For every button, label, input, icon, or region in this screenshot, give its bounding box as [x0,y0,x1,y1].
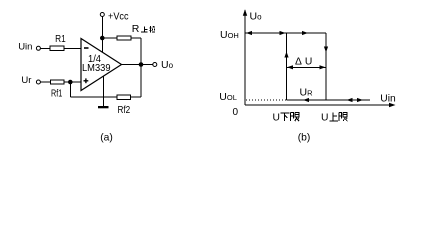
wire Rf2 to output node [131,96,142,98]
svg-text:Rf2: Rf2 [118,105,131,116]
svg-text:R: R [132,23,140,35]
wire Rf1 to op-amp non-inverting input [64,81,81,83]
resistor R pull-up [117,36,131,40]
svg-text:U: U [273,112,280,123]
arrowhead left on UOL right segment [347,98,353,102]
wire feedback down from Rf1 junction [69,82,71,97]
junction dot at Rf1 / feedback [68,80,73,85]
arrowhead right on UOH line mid box [302,31,308,35]
svg-text:UOH: UOH [220,29,239,41]
arrowhead left on UOL segment in box [303,98,309,102]
resistor Rf2 [117,95,131,99]
svg-text:0: 0 [233,107,239,118]
ground [98,106,109,108]
svg-text:Uin: Uin [380,94,396,105]
svg-text:(a): (a) [100,132,113,143]
junction dot at Vcc / pull-up [100,36,105,41]
arrowhead left on UOH line at axis [246,31,252,35]
junction dot at output node [139,62,144,67]
resistor Rf1 [50,80,64,84]
x axis arrowhead [389,103,396,107]
svg-text:U: U [321,112,328,123]
svg-text:LM339: LM339 [82,62,111,74]
arrowhead up on rising edge [284,52,288,58]
op-amp inverting input mark [84,47,89,49]
svg-text:Rf1: Rf1 [51,89,63,100]
wire Uin to R1 [41,47,50,49]
delta-U dimension line [287,66,326,68]
arrowhead down on falling edge [324,47,328,53]
y axis arrowhead [243,9,247,16]
svg-text:Uo: Uo [161,59,174,71]
UOL segment under hysteresis box [287,99,327,101]
svg-text:Uin: Uin [18,41,32,52]
label U lower-limit : hanzi xian (limit) [291,113,300,122]
label R pull-up : hanzi shang (up) [141,27,148,32]
label R pull-up : hanzi la (pull) [149,26,155,33]
wire +Vcc down to op-amp top [101,17,103,53]
svg-text:UR: UR [300,87,314,99]
op-amp U1 1/4 LM339 triangle [81,39,122,91]
svg-text:R1: R1 [55,34,66,45]
arrowhead left on delta-U dimension [287,65,293,69]
node Uin terminal [36,46,40,50]
node Uo terminal [153,63,157,67]
resistor R1 [50,46,64,50]
UOH level line [245,32,326,34]
svg-text:Uo: Uo [250,10,263,22]
rising edge at lower threshold [286,33,288,100]
falling edge at upper threshold [325,33,327,100]
wire pull-up to output node [131,37,141,39]
label U upper-limit : hanzi shang (up) [330,113,338,121]
UOL dotted line [246,99,286,101]
label U lower-limit : hanzi xia (down) [281,113,290,121]
label U upper-limit : hanzi xian (limit) [339,113,348,122]
arrowhead right on delta-U dimension [320,65,326,69]
svg-text:Ur: Ur [21,75,31,86]
wire op-amp ground pin [103,76,105,106]
wire output node vertical [140,38,142,97]
svg-text:+Vcc: +Vcc [108,10,129,22]
arrowhead right on UOL right segment [357,98,363,102]
wire feedback horizontal to Rf2 [70,96,117,98]
op-amp non-inverting input mark [84,78,89,83]
arrowhead right on UOH line before lower threshold [280,31,286,35]
svg-text:UOL: UOL [219,91,237,103]
node Ur terminal [36,80,40,84]
y axis Uo [244,10,246,105]
svg-text:(b): (b) [298,132,311,143]
wire op-amp output to Uo terminal [122,64,153,66]
UOL segment right of box [326,99,370,101]
wire R1 to op-amp inverting input [64,47,81,49]
x axis Uin [245,104,393,106]
wire Vcc node to pull-up resistor [102,37,117,39]
node +Vcc terminal [100,13,104,17]
wire Ur to Rf1 [41,81,50,83]
